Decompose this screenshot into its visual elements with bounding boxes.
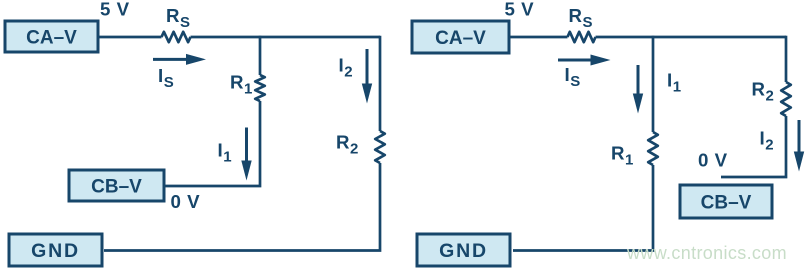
svg-text:IS: IS [565, 64, 581, 90]
svg-text:RS: RS [569, 5, 594, 31]
label RS (right) [569, 5, 594, 31]
wire: R2 branch vertical from top rail to R2 (left, x=380) [379, 36, 382, 131]
terminal box GND (right circuit) [417, 234, 510, 266]
wire: R1 branch vertical, top rail down to R1 (right, x=653) [652, 36, 655, 132]
terminal box CA-V (right circuit) [412, 21, 509, 53]
svg-text:GND: GND [31, 240, 80, 262]
svg-text:CA–V: CA–V [26, 27, 77, 48]
svg-text:R1: R1 [611, 143, 634, 169]
resistor RS (left circuit) [162, 32, 191, 42]
label I1 (left) [218, 140, 233, 166]
svg-text:GND: GND [439, 240, 488, 262]
svg-text:0 V: 0 V [698, 150, 728, 171]
svg-text:R2: R2 [336, 132, 359, 158]
svg-text:CB–V: CB–V [91, 176, 142, 197]
svg-text:R2: R2 [752, 79, 775, 105]
wire: RS to R2-branch corner (left, top rail) [191, 36, 381, 39]
svg-text:CB–V: CB–V [701, 192, 752, 213]
label R1 (left) [230, 72, 253, 98]
label IS (right) [565, 64, 581, 90]
current arrow I2 (left circuit) [362, 49, 372, 104]
label R2 (left) [336, 132, 359, 158]
svg-text:0 V: 0 V [171, 191, 201, 212]
label R1 (right) [611, 143, 634, 169]
terminal box CB-V (left circuit) [69, 170, 164, 201]
svg-text:5 V: 5 V [100, 0, 130, 19]
svg-text:R1: R1 [230, 72, 253, 98]
current arrow I2 (right circuit) [794, 120, 804, 172]
wire: R2 down and bottom rail to GND (left circuit) [104, 163, 380, 251]
svg-text:IS: IS [158, 65, 174, 91]
svg-text:I2: I2 [760, 128, 775, 154]
svg-text:I2: I2 [339, 55, 354, 81]
svg-text:CA–V: CA–V [435, 28, 486, 49]
wire: bottom rail GND to R1 branch (right circuit) [513, 249, 654, 252]
label I2 (right) [760, 128, 775, 154]
wire: CA-V to resistor RS (right, top rail, y=37) [509, 36, 568, 39]
wire: CA-V to resistor RS (left, top rail, y=37) [98, 36, 162, 39]
wire: RS to R2-branch corner (right, top rail) [596, 36, 787, 39]
wire: R1 down and left to CB-V (left circuit) [164, 101, 260, 186]
label RS (left) [166, 5, 191, 31]
wire: R1 down to bottom rail (right, x=653) [652, 165, 655, 251]
label I2 (left) [339, 55, 354, 81]
resistor R1 (right circuit) [648, 132, 658, 165]
label IS (left) [158, 65, 174, 91]
current arrow I1 (left circuit) [241, 128, 251, 181]
wire: R2 branch vertical from top rail to R2 (right, x=786) [785, 36, 788, 82]
resistor R1 (left circuit) [255, 75, 265, 101]
current arrow IS (right circuit) [558, 55, 611, 66]
svg-text:5 V: 5 V [505, 0, 535, 19]
resistor R2 (right circuit) [781, 82, 791, 116]
terminal box CA-V (left circuit) [5, 21, 98, 52]
label R2 (right) [752, 79, 775, 105]
wire: R1 branch vertical, top rail down to R1 (left, x=260) [259, 36, 262, 75]
resistor RS (right circuit) [568, 32, 596, 42]
current arrow IS (left circuit) [153, 54, 206, 65]
label I1 (right) [667, 70, 682, 96]
terminal box CB-V (right circuit) [680, 185, 772, 218]
resistor R2 (left circuit) [375, 131, 385, 163]
svg-text:RS: RS [166, 5, 191, 31]
svg-text:I1: I1 [667, 70, 682, 96]
svg-text:I1: I1 [218, 140, 233, 166]
terminal box GND (left circuit) [9, 234, 102, 266]
svg-text:www.cntronics.com: www.cntronics.com [626, 243, 787, 263]
wire: R2 down and left to node 0V above CB-V (right circuit) [721, 116, 786, 177]
current arrow I1 (right circuit) [633, 65, 643, 114]
